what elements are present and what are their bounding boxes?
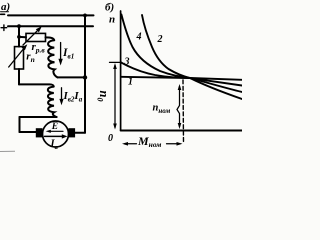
minus terminal [1,13,5,15]
tick n0 level on y-axis [110,61,122,63]
wire below r_п [18,69,20,84]
armature motor circle [43,121,69,147]
svg-text:0: 0 [108,133,113,144]
dimension arrow n_ном [177,87,180,127]
dimension arrow М_ном [125,143,181,145]
wire upper supply rail [8,14,94,16]
current arrow I_в1 [60,43,62,62]
wire vertical from node A down to starting rheostat [18,26,20,46]
resistor starting rheostat r_п body [15,47,24,69]
wire bottom left vertical [19,117,21,132]
node field return to negative rail [83,75,87,79]
x-axis [121,130,242,132]
wire to left brush [20,131,36,133]
svg-text:4: 4 [136,32,142,43]
wire rheostat to field coil [46,37,55,40]
inductor series winding OB2 [48,87,57,117]
faint scan artifact line [0,150,15,152]
curve 1 natural characteristic [121,77,242,80]
current arrow I_в2 I_а [61,88,63,102]
svg-text:2: 2 [157,34,163,45]
curve 2 [142,15,242,99]
curve 4 [121,15,242,93]
dashed line at M_ном [182,80,185,143]
wire from right brush [75,132,85,134]
resistor rheostat r_рв body [26,33,46,41]
svg-text:б): б) [105,2,114,14]
rheostat r_п arrow [9,47,25,67]
rheostat r_рв arrow [23,29,40,45]
y-axis [120,11,122,130]
brush right [69,128,76,137]
svg-text:1: 1 [128,77,133,88]
node on upper rail [83,14,87,18]
curve 3 [121,62,242,85]
wire lower supply rail [8,25,93,27]
svg-text:n: n [109,14,115,26]
wire field return [58,76,86,78]
node A junction on lower rail [17,24,21,28]
wire right vertical to upper rail [84,15,86,132]
EMF arrow (points left) [49,130,63,132]
armature current arrow (points right) [45,135,63,137]
wire armature branch horizontal [19,84,54,86]
svg-text:а): а) [1,1,10,13]
brush left [36,128,43,137]
wire series winding to bottom left [20,116,57,118]
dimension arrow n0 [114,66,116,128]
plus terminal [1,25,7,31]
wire field branch to rheostat [19,36,26,38]
svg-text:3: 3 [124,57,130,68]
inductor field winding OB1 [48,40,57,77]
node B field branch tap [17,35,21,39]
